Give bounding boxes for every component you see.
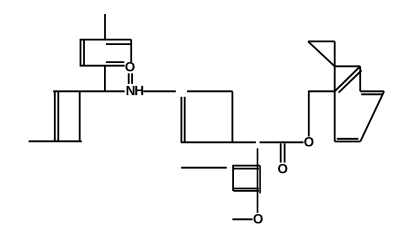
ring C bottom edge long: [181, 141, 256, 143]
ring D top outer edge: [232, 165, 260, 167]
ring C left inner double line: [184, 97, 186, 143]
O label ring A corner: [125, 62, 134, 71]
ring A right edge: [130, 40, 132, 63]
carbonyl O label: [278, 164, 287, 173]
ring D right edge: [259, 166, 261, 194]
ring D left substituent line: [181, 167, 227, 169]
bridge short vertical: [359, 66, 361, 91]
ring B left outer edge: [54, 91, 56, 141]
ring A left outer edge: [80, 40, 82, 66]
ring A left inner double line: [83, 40, 85, 65]
ring A top inner double line: [106, 43, 130, 45]
cyclopropane hypotenuse: [308, 41, 335, 66]
ring D left edge: [232, 166, 234, 191]
ring A top edge: [80, 39, 132, 41]
vertical to ring D and OMe: [257, 148, 259, 213]
double diagonal line 1: [335, 66, 361, 91]
bottom chain to ester: [260, 141, 304, 143]
bottom double bond outer: [335, 141, 361, 143]
ring A to chain vertical: [104, 66, 106, 92]
ring A bottom edge: [80, 65, 125, 67]
ring A bottom inner double line: [106, 61, 124, 63]
double diagonal line 2: [339, 70, 362, 92]
right long diagonal: [360, 91, 384, 141]
ester O to CH2 corner: [309, 91, 335, 136]
OMe methyl: [232, 218, 252, 220]
cyclopropane top edge: [308, 40, 335, 42]
ring C left outer edge: [180, 97, 182, 143]
NH label: [127, 86, 144, 95]
bridge horizontal: [335, 65, 361, 67]
ester O label: [304, 137, 313, 146]
amide double bond lines: [128, 73, 130, 84]
ring B right edge: [79, 91, 81, 141]
right double horizontal line 2: [361, 93, 383, 95]
ring B bottom with methyl tail: [29, 140, 82, 142]
ring C right edge: [231, 91, 233, 142]
ester C=O double lines: [280, 143, 282, 162]
chain NH to ring C: [143, 90, 176, 92]
ring D bottom inner double line: [234, 188, 259, 190]
ring A methyl: [104, 14, 106, 40]
bottom double bond inner: [337, 138, 359, 140]
ring D bottom outer edge: [233, 190, 259, 192]
ring C top edge: [187, 90, 233, 92]
chain left segment: [53, 90, 125, 92]
right structure long vertical: [334, 41, 336, 141]
OMe O label: [253, 214, 262, 223]
ring D top inner double line: [234, 168, 259, 170]
right double horizontal line 1: [360, 90, 384, 92]
ring B left inner double line: [57, 91, 59, 141]
